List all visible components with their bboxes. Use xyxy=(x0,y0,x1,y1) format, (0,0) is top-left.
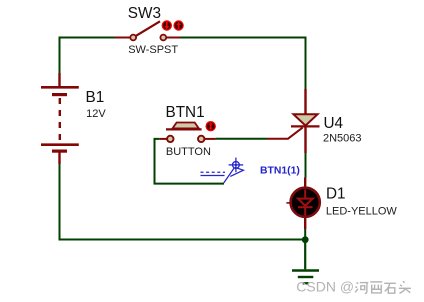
SW3 right pin xyxy=(166,37,180,39)
SW3 actuator button down xyxy=(162,20,172,30)
SW3 right terminal xyxy=(160,35,166,41)
svg-text:B1: B1 xyxy=(86,89,105,106)
svg-text:BUTTON: BUTTON xyxy=(166,146,211,158)
wire top-left from battery top to SW3 xyxy=(60,38,115,74)
wire top-right from SW3 to SCR anode xyxy=(180,38,306,90)
svg-text:U4: U4 xyxy=(324,115,344,132)
D1 body circle xyxy=(291,188,320,217)
U4 gate lead xyxy=(267,128,303,139)
watermark glyph he xyxy=(355,283,368,294)
svg-text:BTN1(1): BTN1(1) xyxy=(260,166,300,177)
actuator linkage BTN1(1) xyxy=(201,158,244,183)
LED D1 xyxy=(286,178,397,230)
ground xyxy=(292,240,319,284)
U4 triangle xyxy=(294,114,318,125)
linkage arm xyxy=(224,167,235,183)
svg-text:2N5063: 2N5063 xyxy=(323,132,362,144)
switch SW3 xyxy=(115,5,184,56)
BTN1 cap base bar xyxy=(166,128,202,130)
BTN1 actuator button xyxy=(206,121,216,131)
linkage target circle xyxy=(233,162,240,169)
linkage dashed line xyxy=(201,171,226,173)
svg-text:12V: 12V xyxy=(86,108,106,120)
SCR U4 2N5063 xyxy=(267,89,362,153)
wire BTN1 right to SCR gate xyxy=(216,138,267,140)
B1 top long plate xyxy=(41,86,79,89)
D1 cathode pin xyxy=(304,217,306,229)
B1 bottom pin xyxy=(58,153,60,165)
D1 left tick xyxy=(286,202,290,204)
BTN1 left terminal xyxy=(167,136,173,142)
BTN1 cap top xyxy=(173,123,199,129)
BTN1 left pin xyxy=(160,138,167,140)
linkage arrow xyxy=(230,167,243,176)
wire SCR cathode to LED anode xyxy=(305,153,307,178)
svg-text:CSDN @: CSDN @ xyxy=(296,279,354,295)
SW3 lever xyxy=(135,21,160,36)
wire LED cathode to junction xyxy=(304,229,306,240)
B1 bottom short plate xyxy=(52,150,67,153)
svg-text:BTN1: BTN1 xyxy=(166,104,205,121)
D1 inner diode symbol xyxy=(298,190,313,216)
wire BTN1 left loop xyxy=(155,139,225,184)
SW3 left pin xyxy=(115,37,131,39)
BTN1 right terminal xyxy=(198,136,204,142)
svg-text:SW-SPST: SW-SPST xyxy=(128,44,178,56)
svg-text:LED-YELLOW: LED-YELLOW xyxy=(326,206,398,218)
U4 anode pin xyxy=(304,89,306,114)
watermark glyph tou xyxy=(399,281,411,293)
linkage solid line xyxy=(201,175,225,177)
B1 top pin xyxy=(58,73,60,86)
wire left-bottom from battery bottom to ground junction xyxy=(60,164,306,240)
B1 bottom long plate xyxy=(41,143,79,146)
B1 dashed link xyxy=(59,98,61,144)
junction node xyxy=(302,236,309,243)
U4 cathode pin xyxy=(304,126,306,153)
D1 anode pin xyxy=(304,178,306,189)
svg-text:SW3: SW3 xyxy=(128,5,161,22)
B1 top short plate xyxy=(52,93,67,96)
push button BTN1 xyxy=(160,104,216,158)
battery B1 xyxy=(41,73,106,164)
SW3 actuator button up xyxy=(173,20,183,30)
watermark glyph shi xyxy=(384,283,396,293)
BTN1 right pin xyxy=(204,138,215,140)
svg-text:D1: D1 xyxy=(326,185,346,202)
U4 cathode bar xyxy=(291,125,320,127)
watermark glyph xi xyxy=(370,282,382,293)
SW3 left terminal xyxy=(130,35,136,41)
